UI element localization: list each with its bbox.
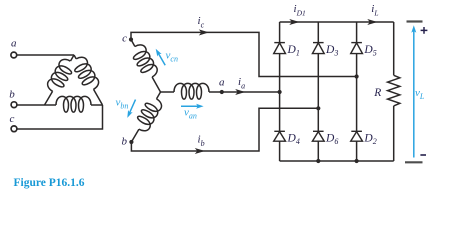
bridge bottom bus <box>280 160 394 162</box>
node c junction dot <box>129 37 133 41</box>
label current i_c <box>198 15 205 30</box>
wire wye c node up and right to bridge <box>131 32 357 76</box>
winding wye phase b (stubs) <box>131 92 160 142</box>
svg-text:R: R <box>373 87 381 99</box>
label diode D5 <box>363 44 376 58</box>
svg-text:c: c <box>10 113 15 125</box>
diode D6 <box>312 131 324 141</box>
label resistor R <box>373 87 381 99</box>
label diode D1 <box>287 44 300 58</box>
svg-text:van: van <box>184 107 197 121</box>
label voltage v_cn <box>166 50 178 64</box>
winding wye phase c (stubs) <box>131 40 161 93</box>
junction bottom bus leg2 <box>316 159 320 163</box>
svg-text:b: b <box>122 136 128 148</box>
label diode D2 <box>363 132 376 146</box>
label plus <box>421 27 428 34</box>
load terminal bar top <box>407 20 423 22</box>
svg-text:vL: vL <box>415 87 425 101</box>
wire c to delta bottom-right <box>17 105 102 129</box>
diode D1 <box>274 43 286 54</box>
diode D5 <box>351 43 363 54</box>
current arrow i_L <box>367 19 377 25</box>
svg-text:ic: ic <box>198 15 205 30</box>
current arrow i_c <box>199 29 209 35</box>
voltage arrow v_cn <box>154 47 166 65</box>
label terminal b <box>9 89 15 101</box>
terminal a <box>11 52 17 58</box>
svg-text:Figure P16.1.6: Figure P16.1.6 <box>14 177 85 189</box>
label voltage v_an <box>184 107 197 121</box>
bridge leg 1 <box>279 22 281 161</box>
winding wye phase b coil <box>133 95 164 133</box>
winding delta right (stubs) <box>74 55 103 105</box>
figure caption <box>14 177 85 189</box>
winding delta bottom (stubs) <box>45 104 103 106</box>
winding delta bottom coil <box>56 96 91 112</box>
label terminal c <box>10 113 15 125</box>
voltage arrow v_bn <box>125 100 135 119</box>
diode D4 <box>274 131 286 141</box>
winding delta left (stubs) <box>45 55 75 105</box>
voltage arrow v_an <box>181 104 204 109</box>
voltage arrow v_L <box>411 25 416 157</box>
svg-text:vcn: vcn <box>166 50 178 64</box>
label wye node c <box>122 33 127 45</box>
svg-text:a: a <box>219 77 225 89</box>
bridge leg 3 <box>356 22 358 161</box>
svg-text:D3: D3 <box>325 44 338 58</box>
svg-text:a: a <box>11 38 17 50</box>
svg-text:iL: iL <box>371 3 378 18</box>
svg-text:D1: D1 <box>287 44 300 58</box>
winding wye phase a coil <box>174 83 209 99</box>
wire a to delta apex <box>17 54 74 56</box>
load terminal bar bottom <box>405 161 423 163</box>
label current i_D1 <box>294 3 306 18</box>
label diode D4 <box>287 132 300 146</box>
svg-text:D5: D5 <box>363 44 376 58</box>
bridge top bus <box>280 21 394 23</box>
svg-text:D2: D2 <box>363 132 376 146</box>
label terminal a <box>11 38 17 50</box>
label wye node a <box>219 77 225 89</box>
label minus <box>420 154 426 156</box>
current arrow i_D1 <box>289 19 299 25</box>
load branch wires <box>393 22 395 161</box>
junction leg1-phase a <box>278 90 282 94</box>
current arrow i_b <box>195 148 205 154</box>
resistor R zigzag <box>388 75 400 106</box>
svg-text:ib: ib <box>198 133 205 148</box>
terminal c <box>11 126 17 132</box>
label wye node b <box>122 136 128 148</box>
svg-text:ia: ia <box>238 76 245 91</box>
svg-text:b: b <box>9 89 15 101</box>
winding delta left coil <box>45 57 76 95</box>
winding wye phase a (stubs) <box>161 91 222 93</box>
diode D3 <box>312 43 324 54</box>
junction leg2-phase b <box>316 106 320 110</box>
svg-text:c: c <box>122 33 127 45</box>
svg-text:D6: D6 <box>325 132 338 146</box>
label current i_L <box>371 3 378 18</box>
svg-text:vbn: vbn <box>116 97 129 111</box>
junction leg3-phase c <box>355 74 359 78</box>
label current i_b <box>198 133 205 148</box>
svg-text:D4: D4 <box>287 132 300 146</box>
junction bottom bus leg3 <box>355 159 359 163</box>
svg-text:iD1: iD1 <box>294 3 306 18</box>
terminal b <box>11 102 17 108</box>
label diode D3 <box>325 44 338 58</box>
label current i_a <box>238 76 245 91</box>
diode D2 <box>351 131 363 141</box>
label voltage v_L <box>415 87 425 101</box>
label diode D6 <box>325 132 338 146</box>
bridge leg 2 <box>317 22 319 161</box>
node a junction dot <box>220 90 224 94</box>
label voltage v_bn <box>116 97 129 111</box>
wire b to delta bottom-left <box>17 104 44 106</box>
winding wye phase c coil <box>129 42 160 80</box>
wire node b to bridge leg 2 <box>131 108 318 151</box>
winding delta right coil <box>70 55 101 93</box>
node b junction dot <box>129 140 133 144</box>
wire node a to bridge leg 1 <box>222 91 280 93</box>
current arrow i_a <box>235 89 245 95</box>
